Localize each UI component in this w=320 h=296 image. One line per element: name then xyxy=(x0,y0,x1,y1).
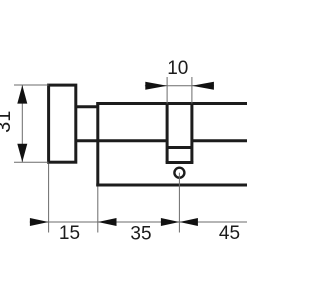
svg-text:35: 35 xyxy=(130,224,151,245)
svg-text:45: 45 xyxy=(219,223,240,244)
svg-text:31: 31 xyxy=(0,111,15,133)
svg-text:15: 15 xyxy=(59,223,80,244)
svg-text:10: 10 xyxy=(167,58,188,79)
